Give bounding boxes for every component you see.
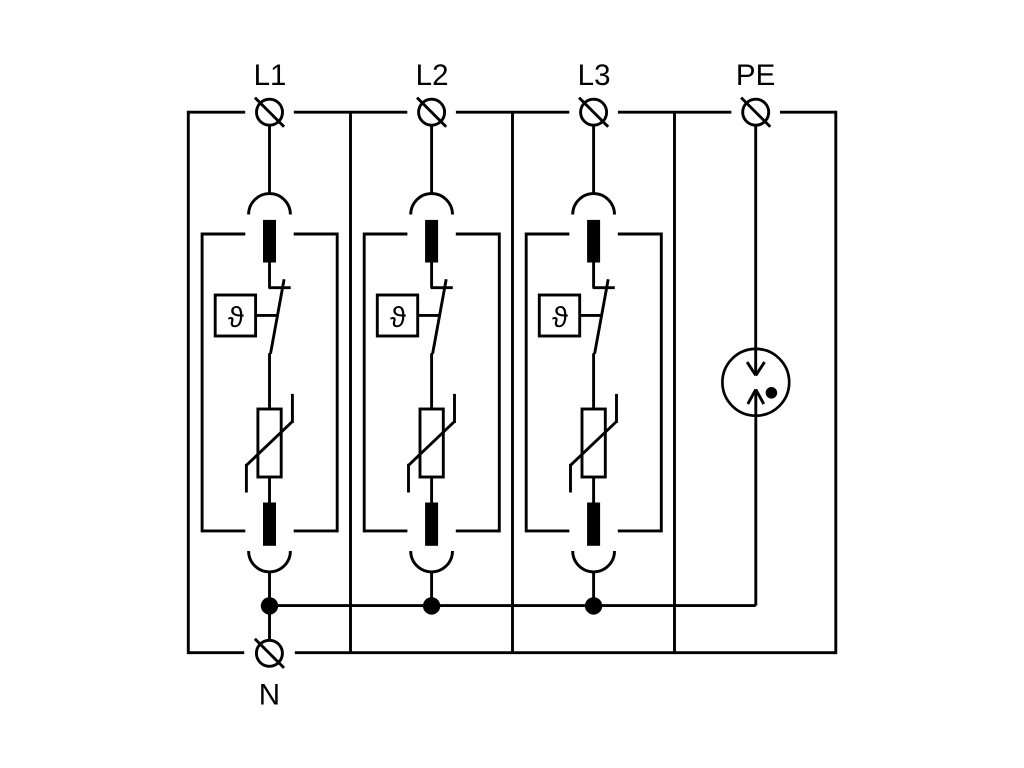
svg-text:PE: PE <box>736 59 775 92</box>
svg-text:ϑ: ϑ <box>228 302 244 334</box>
svg-text:ϑ: ϑ <box>390 302 406 334</box>
svg-text:L1: L1 <box>254 59 287 92</box>
svg-text:N: N <box>259 678 280 711</box>
svg-text:L2: L2 <box>416 59 449 92</box>
svg-text:ϑ: ϑ <box>552 302 568 334</box>
svg-text:L3: L3 <box>578 59 611 92</box>
